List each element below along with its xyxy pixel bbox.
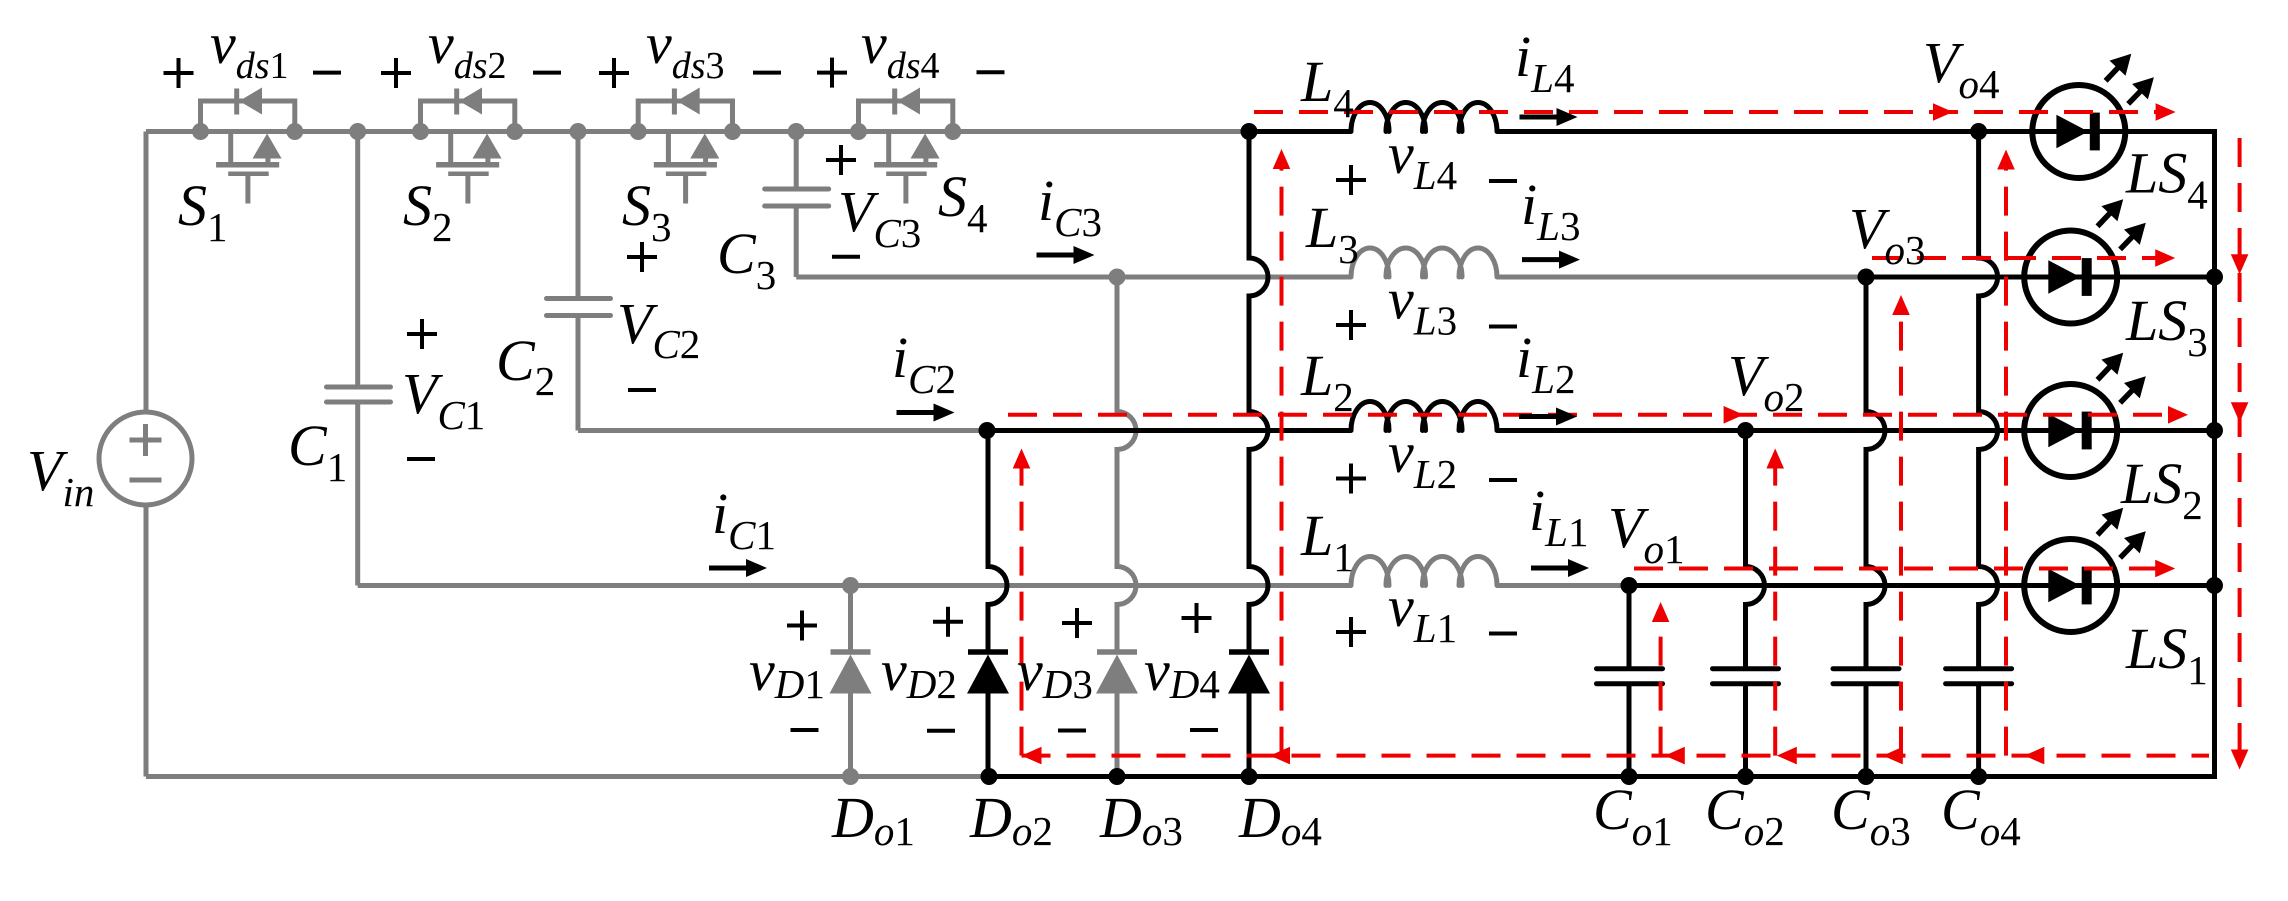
wire right rail <box>2212 129 2217 777</box>
label Vo3 <box>1849 196 1925 273</box>
red path Co1 up <box>1652 602 1670 756</box>
label Vo1 <box>1608 495 1684 572</box>
node S2 source <box>506 123 523 140</box>
label vds2 <box>381 11 561 88</box>
diode Do4 <box>1228 132 1270 777</box>
wire C2 to row2 <box>578 428 987 433</box>
node LS1 cathode rail <box>2206 577 2223 594</box>
label VC3 <box>826 145 921 257</box>
capacitor Co4 <box>1946 132 2012 777</box>
label Co4 <box>1941 777 2021 854</box>
label Vin <box>27 438 94 515</box>
node Vo1 <box>1621 577 1638 594</box>
arrow iC2 <box>897 404 955 422</box>
diode Do3 <box>1096 277 1138 777</box>
node Do2 bottom <box>981 768 998 785</box>
label L2 <box>1300 343 1354 420</box>
label LS2 <box>2120 451 2203 528</box>
LED LS4 rays <box>2106 54 2154 104</box>
arrow iL3 <box>1522 251 1580 269</box>
label C3 <box>717 221 776 298</box>
node S4 source <box>944 123 961 140</box>
label iC1 <box>712 481 776 558</box>
label iL4 <box>1515 24 1574 101</box>
node S3 drain <box>630 123 647 140</box>
label VC2 <box>617 242 700 390</box>
red path row2 <box>1008 406 2188 424</box>
label Do2 <box>969 785 1053 854</box>
capacitor C1 <box>327 132 391 586</box>
wire Do2 node to L2 <box>987 428 1351 433</box>
wire row1 black <box>1629 583 2215 588</box>
label vD2 <box>881 607 963 731</box>
capacitor Co1 <box>1597 586 1663 777</box>
LED LS2 <box>2024 384 2117 477</box>
red path row1 <box>1634 560 2175 578</box>
wire L2 to LS2 and rail <box>1497 428 2215 433</box>
diode Do2 <box>967 431 1009 777</box>
label Co2 <box>1705 777 1785 854</box>
transistor S2 <box>421 88 515 204</box>
node LS2 cathode rail <box>2206 422 2223 439</box>
label S4 <box>938 164 988 241</box>
label Do4 <box>1238 785 1322 854</box>
label iC3 <box>1038 168 1102 245</box>
capacitor Co2 <box>1713 431 1779 777</box>
inductor L1 <box>1351 557 1497 586</box>
label L4 <box>1300 49 1354 126</box>
label L1 <box>1300 503 1354 580</box>
wire L4 to LS4 and rail <box>1497 129 2215 134</box>
wire L1 to Vo1 <box>1497 583 1629 588</box>
LED LS1 <box>2024 539 2117 632</box>
node LS3 cathode rail <box>2206 269 2223 286</box>
node Do1 anode junction <box>842 577 859 594</box>
label VC1 <box>402 319 485 459</box>
node C2 tap <box>570 123 587 140</box>
arrow iL4 <box>1520 108 1578 126</box>
red path Do2 up <box>1013 449 1031 756</box>
node S1 source <box>286 123 303 140</box>
label S3 <box>622 173 672 250</box>
label L3 <box>1305 195 1359 272</box>
red path Co2 up <box>1766 449 1784 756</box>
LED LS3 rays <box>2098 199 2146 249</box>
capacitor C3 <box>765 132 829 278</box>
label vds4 <box>817 11 1005 88</box>
label Co3 <box>1831 777 1911 854</box>
label iL1 <box>1529 478 1588 555</box>
node Do4 bottom <box>1241 768 1258 785</box>
LED LS1 rays <box>2098 508 2146 558</box>
label Vo2 <box>1728 343 1804 420</box>
inductor L3 <box>1351 248 1497 277</box>
capacitor Co3 <box>1833 277 1899 777</box>
label iL2 <box>1516 325 1575 402</box>
node S1 drain <box>192 123 209 140</box>
node C3 tap <box>788 123 805 140</box>
label Vo4 <box>1923 30 1999 107</box>
label S2 <box>403 173 453 250</box>
label LS4 <box>2125 141 2208 218</box>
transistor S4 <box>859 88 953 204</box>
label Co1 <box>1593 777 1673 854</box>
inductor L4 <box>1351 103 1497 132</box>
node Co2 bottom <box>1737 768 1754 785</box>
node Vo2 <box>1737 422 1754 439</box>
node L2-Do2 junction <box>979 422 996 439</box>
label vD1 <box>749 611 825 731</box>
label vL3 <box>1336 267 1517 344</box>
inductor L2 <box>1351 402 1497 431</box>
capacitor C2 <box>547 132 611 431</box>
node Vo4 <box>1970 123 1987 140</box>
wire junction to L4 <box>1249 129 1351 134</box>
red path Co3 up <box>1892 295 1910 756</box>
wire bottom rail black <box>989 774 2217 779</box>
label vds3 <box>599 11 781 88</box>
wire L3 to Vo3 <box>1497 275 1866 280</box>
LED LS4 <box>2032 85 2125 178</box>
arrow iL2 <box>1519 408 1577 426</box>
label vD4 <box>1144 603 1220 730</box>
arrow iC3 <box>1037 246 1095 264</box>
node S4 drain <box>850 123 867 140</box>
red path row4 <box>1254 103 2176 121</box>
label vL1 <box>1336 574 1517 651</box>
label LS3 <box>2125 288 2208 365</box>
node Co1 bottom <box>1621 768 1638 785</box>
diode Do1 <box>830 586 872 777</box>
label S1 <box>178 173 228 250</box>
red path Do4 up <box>1273 149 1291 756</box>
red path row3 <box>1872 249 2175 267</box>
label C2 <box>496 328 555 404</box>
label vD3 <box>1017 608 1093 731</box>
transistor S3 <box>638 88 732 204</box>
node L4-Do4 junction <box>1241 123 1258 140</box>
arrow iC1 <box>709 559 767 577</box>
node Co3 bottom <box>1858 768 1875 785</box>
LED LS3 <box>2024 231 2117 324</box>
node Co4 bottom <box>1970 768 1987 785</box>
wire left rail top <box>144 132 149 414</box>
label vL2 <box>1336 420 1517 497</box>
label iC2 <box>892 325 956 402</box>
red path Co4 up <box>1997 150 2015 756</box>
red path bottom <box>1022 747 2210 765</box>
wire bottom rail gray <box>146 774 989 779</box>
node Vo3 <box>1858 269 1875 286</box>
node C1 tap <box>349 123 366 140</box>
wire row3 black <box>1866 275 2215 280</box>
label vds1 <box>164 11 342 88</box>
node S2 drain <box>412 123 429 140</box>
voltage source Vin <box>99 412 192 505</box>
label Do1 <box>831 785 915 854</box>
node Do3 bottom <box>1109 768 1126 785</box>
node C3-Do3-L3 junction <box>1109 269 1126 286</box>
transistor S1 <box>201 88 295 204</box>
wire left rail bottom <box>144 504 149 777</box>
LED LS2 rays <box>2098 353 2146 403</box>
label vL4 <box>1336 121 1517 198</box>
label Do3 <box>1099 785 1183 854</box>
arrow iL1 <box>1531 559 1589 577</box>
label LS1 <box>2125 616 2208 693</box>
wire C1 to row1 <box>358 583 1351 588</box>
label C1 <box>288 413 347 490</box>
label iL3 <box>1521 172 1580 249</box>
red path right rail <box>2231 138 2249 770</box>
node Do1 cathode junction <box>842 768 859 785</box>
node S3 source <box>724 123 741 140</box>
wire C3 to row3 <box>796 275 1351 280</box>
wire top bus <box>146 129 1249 134</box>
